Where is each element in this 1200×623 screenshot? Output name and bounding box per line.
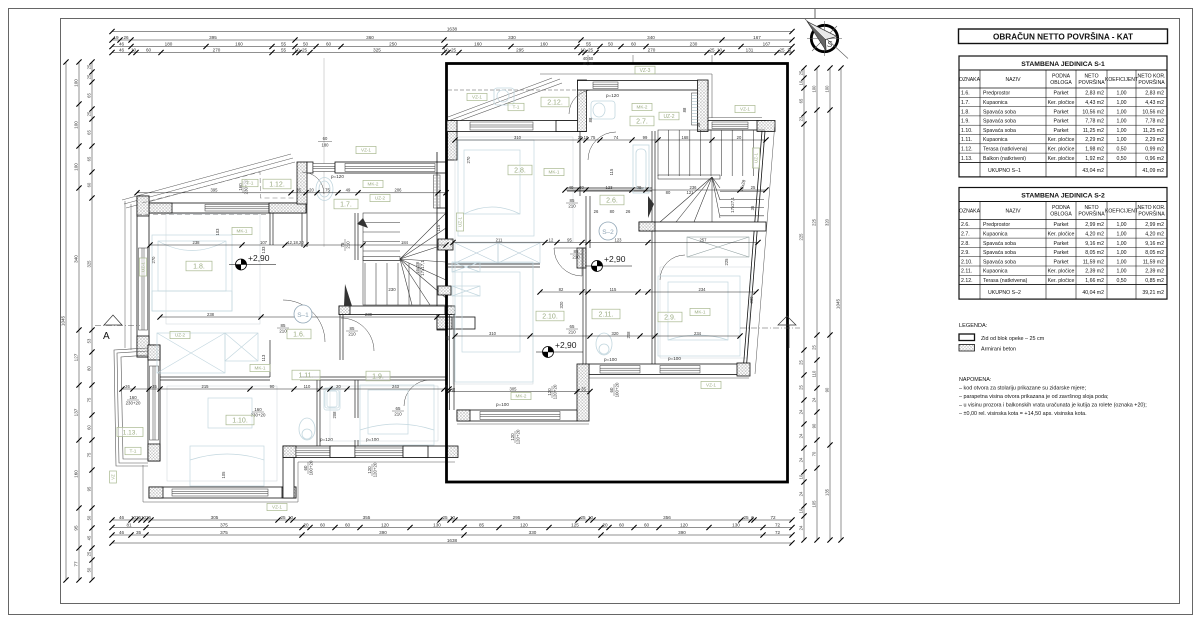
svg-text:1,00: 1,00 [1116,259,1126,265]
svg-text:55: 55 [281,47,287,52]
svg-text:– kod otvora za stolariju: – kod otvora za stolariju prikazane su z… [959,386,1087,392]
furniture wardrobe room 2.10 [452,262,480,296]
fixture shower room 1.11 [324,388,340,410]
svg-text:KOEFICIJENT: KOEFICIJENT [1105,77,1138,83]
svg-text:50: 50 [608,41,614,46]
svg-text:234: 234 [699,287,707,292]
svg-text:Parket: Parket [1054,128,1070,134]
svg-text:60: 60 [631,41,637,46]
wall S-2 top-right band [708,121,766,131]
svg-text:2.7.: 2.7. [961,232,970,238]
svg-text:45: 45 [87,535,92,540]
label UZ-1 left wall [139,258,146,276]
svg-text:UZ-2: UZ-2 [375,196,386,201]
unit circle S-2 [599,222,617,240]
svg-text:24: 24 [799,433,804,438]
svg-text:Spavaća soba: Spavaća soba [983,128,1016,134]
svg-text:38: 38 [696,122,701,127]
level mark S-1 +2,90 [229,253,276,270]
unit circle S-1 [294,305,312,323]
svg-text:Ker. pločice: Ker. pločice [1048,147,1075,153]
svg-text:Parket: Parket [1054,259,1070,265]
svg-text:120+20: 120+20 [552,384,557,399]
svg-text:160: 160 [235,41,243,46]
svg-text:VZ-1: VZ-1 [272,505,282,510]
svg-text:320: 320 [825,218,830,226]
room label 1.9 [366,371,390,381]
stack dim 60,180 top [318,136,332,148]
label MK-2 bath [632,103,652,110]
svg-text:26: 26 [626,209,631,214]
svg-text:120: 120 [680,522,688,527]
svg-text:1.12.: 1.12. [269,182,285,189]
svg-text:1.6.: 1.6. [961,91,970,97]
door fraction labels [346,326,358,336]
svg-text:25: 25 [779,47,785,52]
svg-text:Parket: Parket [1054,222,1070,228]
svg-text:NETO: NETO [1084,74,1098,80]
svg-text:270: 270 [151,256,156,264]
interior dim S-2 upper [455,139,766,141]
label MK-1 S-1 lower [250,364,270,371]
svg-text:225: 225 [724,258,729,266]
label MK-1 room 2.9 [690,308,710,315]
svg-text:65: 65 [87,130,92,135]
label UZ-2 bath [659,112,679,120]
svg-text:310: 310 [514,135,522,140]
svg-text:60: 60 [326,41,332,46]
section marker A left [95,315,140,342]
svg-text:10,56 m2: 10,56 m2 [1082,109,1104,115]
title box OBRACUN [959,29,1168,44]
svg-text:90: 90 [825,387,830,392]
svg-text:270: 270 [213,47,221,52]
floor outline room 2.8 [455,137,573,242]
svg-text:25: 25 [442,515,448,520]
room label 2.6 [600,195,624,205]
svg-text:Ker. pločice: Ker. pločice [1048,156,1075,162]
svg-text:65: 65 [87,156,92,161]
svg-text:p=100: p=100 [604,357,617,362]
svg-text:120: 120 [510,433,515,441]
svg-text:2.10.: 2.10. [542,314,558,321]
svg-text:Ker. pločice: Ker. pločice [1048,278,1075,284]
label UZ-1 party S-2 [456,213,463,231]
svg-text:2,29 m2: 2,29 m2 [1145,137,1164,143]
svg-text:12,18,20: 12,18,20 [287,240,304,245]
table STAMBENA JEDINICA S-1 [959,56,1167,177]
svg-text:Armirani beton: Armirani beton [981,347,1016,353]
svg-text:65: 65 [570,324,575,329]
svg-text:Spavaća soba: Spavaća soba [983,109,1016,115]
wall S-1 bottom [149,487,296,498]
floor outline room 1.9 [330,386,438,441]
svg-text:Predprostor: Predprostor [983,91,1010,97]
svg-text:81: 81 [126,522,132,527]
svg-text:325: 325 [87,260,92,268]
door leaf wedge 2.6 [648,196,654,218]
interior dim S-1 mid [160,316,437,318]
svg-text:25: 25 [302,47,308,52]
svg-text:Kupaonica: Kupaonica [983,269,1008,275]
label UZ-2 S-1 [170,331,190,338]
svg-text:75: 75 [591,135,596,140]
svg-text:POVRŠINA: POVRŠINA [1078,211,1105,218]
svg-text:100+20: 100+20 [308,460,313,475]
svg-text:2.9.: 2.9. [961,250,970,256]
svg-text:17x27,1: 17x27,1 [730,197,735,213]
bold boundary rectangle unit S-2 [447,64,788,483]
svg-text:310: 310 [489,331,497,336]
dimension chain left row 3 [87,64,92,572]
room label 2.12 [541,97,569,107]
svg-text:0,99 m2: 0,99 m2 [1145,147,1164,153]
svg-text:1,00: 1,00 [1116,128,1126,134]
door arc S-2 terrace [569,90,593,114]
level mark S-2 hall +2,90 [585,254,632,272]
svg-text:26: 26 [594,209,599,214]
svg-text:10: 10 [288,515,294,520]
svg-text:270: 270 [648,47,656,52]
svg-text:356: 356 [663,515,671,520]
svg-text:230+20: 230+20 [126,400,141,405]
dimension chain right total 1045 [836,298,841,309]
svg-text:VZ-1: VZ-1 [361,148,371,153]
svg-text:10: 10 [443,47,449,52]
svg-text:26: 26 [123,35,129,40]
svg-text:1.13.: 1.13. [123,429,138,436]
svg-text:25: 25 [580,515,586,520]
door arc S-1 room 1.9 [404,380,430,406]
svg-text:105: 105 [812,500,817,508]
wall S-1 left upper [137,196,149,357]
svg-text:11: 11 [787,47,792,52]
svg-text:210: 210 [568,329,576,334]
svg-text:Ker. pločice: Ker. pločice [1048,232,1075,238]
wall S-2 slanted right [743,122,775,374]
svg-text:2,39 m2: 2,39 m2 [1085,269,1104,275]
dimension chain right row 1 [799,70,804,530]
label VZ-1 bottom S-2 [701,381,721,388]
svg-text:46: 46 [119,47,125,52]
floor outline room 1.10 [167,386,277,481]
svg-text:2.8.: 2.8. [514,168,526,175]
svg-text:10: 10 [588,515,594,520]
svg-text:225: 225 [799,233,804,241]
svg-text:180: 180 [322,143,330,148]
furniture wardrobe room 2.9 [687,237,749,257]
svg-text:Parket: Parket [1054,119,1070,125]
svg-text:0,85 m2: 0,85 m2 [1145,278,1164,284]
label VZ-1 top right [735,105,755,112]
interior walls S-2 lower [583,231,655,364]
door arc S-1 hall [341,318,374,351]
svg-text:210: 210 [568,203,576,208]
svg-text:6: 6 [751,515,754,520]
party wall piers S-2 [438,239,453,250]
lamella party wall S-1 [434,175,441,208]
svg-text:88: 88 [682,107,687,112]
svg-text:55: 55 [586,41,592,46]
svg-text:60: 60 [609,387,614,392]
svg-text:+2,90: +2,90 [555,340,577,350]
svg-text:35: 35 [750,205,755,210]
svg-text:POVRŠINA: POVRŠINA [1078,79,1105,86]
door leaf wedge stair S-1 [357,218,368,228]
frame divider tick top [814,9,816,19]
svg-text:210: 210 [348,331,356,336]
svg-text:1.6.: 1.6. [293,332,305,339]
svg-text:NAZIV: NAZIV [1005,209,1021,215]
svg-text:1.10.: 1.10. [232,418,248,425]
wall S-1 top band [149,203,306,213]
S-2 roof slant lines [448,74,712,125]
svg-text:107: 107 [260,240,268,245]
svg-text:330: 330 [508,35,516,40]
svg-text:Ker. pločice: Ker. pločice [1048,100,1075,106]
svg-text:160: 160 [129,395,137,400]
interior dim S-2 mid [565,189,766,191]
svg-text:8,05 m2: 8,05 m2 [1085,250,1104,256]
svg-text:A: A [103,331,110,342]
svg-text:1,00: 1,00 [1116,250,1126,256]
svg-text:20: 20 [309,188,314,193]
label UZ-1 right wall [752,148,759,168]
notes NAPOMENA [959,377,1147,417]
svg-text:120: 120 [547,388,552,396]
svg-text:115: 115 [609,168,614,175]
wall S-2 mid thin [447,264,586,267]
label T-1 S-1 [242,179,258,186]
svg-text:10: 10 [294,47,300,52]
svg-text:11,25 m2: 11,25 m2 [1143,128,1164,134]
svg-text:25: 25 [87,551,92,556]
wall S-1 left lower [148,345,160,461]
svg-text:50: 50 [87,567,92,572]
svg-text:MK-1: MK-1 [255,366,266,371]
svg-text:10: 10 [799,474,804,479]
svg-text:VZ-1: VZ-1 [740,107,750,112]
door arc S-1 terrace [302,172,324,194]
svg-text:10: 10 [717,47,723,52]
svg-text:1,98 m2: 1,98 m2 [1085,147,1104,153]
svg-text:11,25 m2: 11,25 m2 [1083,128,1104,134]
svg-text:9,16 m2: 9,16 m2 [1145,241,1164,247]
svg-text:88: 88 [588,117,593,122]
dimension chain left row 2 [74,79,79,567]
svg-text:4,20 m2: 4,20 m2 [1145,232,1164,238]
svg-text:4,20 m2: 4,20 m2 [1085,232,1104,238]
svg-text:12: 12 [549,237,554,242]
svg-text:10: 10 [131,47,137,52]
wall S-1 terrace bottom band [437,317,475,329]
svg-text:T-1: T-1 [513,105,520,111]
svg-text:50: 50 [87,515,92,520]
svg-text:1,00: 1,00 [1116,241,1126,247]
svg-text:25: 25 [743,515,749,520]
svg-text:110: 110 [812,370,817,377]
svg-text:Spavaća soba: Spavaća soba [983,119,1016,125]
svg-text:1.10.: 1.10. [961,128,973,134]
svg-text:40,04 m2: 40,04 m2 [1082,290,1104,296]
svg-text:160: 160 [540,41,548,46]
svg-text:206: 206 [395,188,403,193]
svg-text:+2,90: +2,90 [248,253,270,263]
svg-text:25: 25 [146,515,152,520]
dimension chain top row 4 [112,52,792,54]
svg-text:POVRŠINA: POVRŠINA [1138,211,1165,218]
room label 1.13 [117,427,143,436]
svg-text:p=120: p=120 [606,93,619,98]
svg-text:Predprostor: Predprostor [983,222,1010,228]
staircase S-1 [363,213,446,305]
svg-text:295: 295 [513,515,521,520]
furniture bed room 1.8 [152,235,232,311]
svg-text:390: 390 [379,530,387,535]
svg-text:24: 24 [799,409,804,414]
svg-text:17x17,1: 17x17,1 [420,260,425,276]
svg-text:60: 60 [323,136,328,141]
svg-text:10: 10 [580,47,586,52]
svg-text:UKUPNO S–2: UKUPNO S–2 [988,290,1021,296]
furniture bed room 1.10 [190,398,264,486]
legend swatch wall [959,334,975,341]
table STAMBENA JEDINICA S-2 [959,188,1167,300]
svg-text:9,16 m2: 9,16 m2 [1085,241,1104,247]
svg-text:130: 130 [433,522,441,527]
svg-text:1.9.: 1.9. [961,119,970,125]
svg-text:46: 46 [119,41,125,46]
svg-text:26: 26 [125,384,130,389]
svg-text:– parapetna visina otvora: – parapetna visina otvora prikazana je o… [959,394,1109,400]
floor outline room 2.9 [660,267,752,358]
svg-text:85: 85 [281,323,286,328]
svg-text:72: 72 [775,530,781,535]
interior dim S-1 top [137,192,446,194]
svg-text:133: 133 [261,246,266,254]
svg-text:Spavaća soba: Spavaća soba [983,259,1016,265]
svg-text:103: 103 [215,228,220,236]
svg-text:OZNAKA: OZNAKA [959,209,981,215]
furniture wardrobe S-2 mid [455,243,540,263]
svg-text:MK-1: MK-1 [549,170,560,175]
svg-text:– u visinu prozora i balk: – u visinu prozora i balkonskih vrata ur… [959,403,1147,409]
svg-text:VZ-1: VZ-1 [706,383,716,388]
svg-text:20: 20 [737,135,742,140]
fixture sink room 1.11 [325,390,339,408]
svg-text:99: 99 [643,135,648,140]
svg-text:MK-1: MK-1 [695,310,706,315]
svg-text:230: 230 [388,287,396,292]
svg-text:35: 35 [445,335,450,340]
svg-text:20,10: 20,10 [578,135,589,140]
svg-text:120: 120 [520,522,528,527]
svg-text:1045: 1045 [836,298,841,309]
svg-text:1638: 1638 [447,538,458,543]
wall S-1 below stairs band [339,306,455,315]
svg-text:11,59 m2: 11,59 m2 [1143,259,1164,265]
svg-text:p=100: p=100 [496,402,509,407]
svg-text:1.9.: 1.9. [372,374,384,381]
svg-text:230: 230 [690,41,698,46]
svg-text:55: 55 [281,41,287,46]
svg-text:0,50: 0,50 [1116,278,1126,284]
svg-text:43,04 m2: 43,04 m2 [1082,168,1104,174]
fixture WC room 2.11 [596,333,612,355]
svg-text:1.8.: 1.8. [961,109,970,115]
svg-text:250: 250 [389,41,397,46]
svg-text:T-1: T-1 [130,449,137,455]
svg-text:74: 74 [614,135,619,140]
svg-text:10: 10 [450,515,456,520]
svg-text:2.11.: 2.11. [961,269,972,275]
dimension chain bottom row 3 [112,534,792,536]
svg-text:1.7.: 1.7. [340,202,352,209]
svg-text:30: 30 [579,185,584,190]
svg-text:85: 85 [479,522,485,527]
svg-text:1,00: 1,00 [1116,232,1126,238]
svg-text:11,59 m2: 11,59 m2 [1083,259,1104,265]
svg-text:340: 340 [74,255,79,263]
svg-text:Parket: Parket [1054,91,1070,97]
svg-text:105: 105 [221,471,226,479]
svg-text:72: 72 [770,515,776,520]
svg-text:95: 95 [74,525,79,531]
svg-text:72: 72 [775,522,781,527]
vent lamella S-2 [692,93,698,125]
svg-text:360: 360 [366,35,374,40]
dimension chain bottom total 1638 [112,542,792,544]
svg-text:125: 125 [571,522,579,527]
svg-text:Balkon (natkriveni): Balkon (natkriveni) [983,156,1026,162]
svg-text:20: 20 [336,384,341,389]
svg-text:25: 25 [87,111,92,116]
svg-text:77: 77 [74,561,79,567]
svg-text:UZ-2: UZ-2 [175,333,186,338]
svg-text:85: 85 [570,198,575,203]
svg-text:Terasa (natkrivena): Terasa (natkrivena) [983,278,1028,284]
svg-text:25: 25 [799,70,804,75]
floor outline room 1.8 [166,214,260,324]
svg-text:S: S [827,40,833,49]
room label 2.11 [592,309,620,319]
svg-text:130: 130 [732,522,740,527]
svg-text:25: 25 [588,47,594,52]
svg-text:7,78 m2: 7,78 m2 [1085,119,1104,125]
svg-text:2.12.: 2.12. [961,278,973,284]
svg-text:65: 65 [396,406,401,411]
svg-text:NETO: NETO [1084,205,1098,211]
svg-text:60: 60 [146,47,152,52]
svg-text:OZNAKA: OZNAKA [959,77,981,83]
svg-text:208: 208 [332,411,337,419]
wall S-2 bottom left band [457,410,577,421]
svg-text:VZ: VZ [111,474,116,480]
svg-text:121: 121 [687,190,695,195]
svg-text:330: 330 [749,296,754,304]
svg-text:184: 184 [401,240,409,245]
wall S-1 party wall [437,208,446,330]
svg-text:2.6.: 2.6. [606,198,618,205]
svg-text:160: 160 [74,470,79,478]
svg-text:23: 23 [799,116,804,121]
extension line x324 [323,58,325,247]
svg-text:39: 39 [637,185,642,190]
svg-text:Parket: Parket [1054,109,1070,115]
svg-text:2,83 m2: 2,83 m2 [1085,91,1104,97]
svg-text:KOEFICIJENT: KOEFICIJENT [1105,209,1138,215]
svg-text:1045: 1045 [61,315,66,326]
